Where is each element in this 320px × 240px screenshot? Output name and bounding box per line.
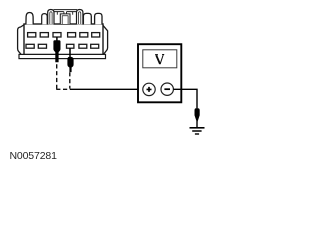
connector C1 top arch C — [48, 10, 54, 25]
connector C1 top bump B — [42, 14, 48, 25]
pin 12 bottom row — [91, 44, 99, 48]
ground symbol — [190, 127, 205, 129]
pin 2 top row — [40, 33, 48, 37]
probe P2 plug body (below connector edge) — [67, 57, 73, 72]
connector C1 latch bridge leg right — [72, 12, 74, 15]
down arrow plug on ground lead — [195, 108, 200, 121]
wire to voltmeter positive terminal — [70, 88, 143, 90]
voltmeter V1 minus sign — [164, 88, 170, 90]
voltmeter V1 body — [138, 44, 181, 102]
connector C1 body — [24, 24, 103, 55]
connector C1 left ear — [18, 24, 25, 54]
dashed test lead from arrow 1, horizontal — [56, 88, 70, 90]
connector C1 latch peg — [64, 12, 67, 14]
figure reference label — [10, 150, 57, 162]
connector C1 top bump F — [95, 13, 102, 24]
connector C1 top arch C inner wall — [50, 12, 52, 24]
probe P2 lead from pin 10 — [69, 48, 71, 58]
probe P1 plug body (at pin 9 position) — [53, 40, 60, 62]
pin 7 bottom row — [26, 44, 34, 48]
voltmeter V1 negative terminal — [161, 83, 173, 95]
voltmeter V1 plus sign — [147, 87, 152, 92]
dashed test lead from arrow 2, vertical — [69, 72, 71, 88]
connector C1 latch box inner walls — [62, 16, 68, 24]
pin 1 top row — [28, 33, 36, 37]
voltmeter V1 display window — [143, 50, 177, 68]
connector C1 latch bridge leg left — [56, 12, 58, 15]
pin 3 top row (probed) — [53, 33, 61, 37]
wire to ground — [196, 121, 198, 127]
connector C1 top bump E — [83, 13, 91, 24]
dashed test lead from arrow 1, vertical — [56, 64, 58, 89]
voltmeter V1 positive terminal — [143, 83, 155, 95]
pin 8 bottom row — [38, 44, 46, 48]
pin 4 top row — [68, 33, 76, 37]
probe P1 lead from pin 3 — [56, 37, 58, 41]
pin 10 bottom row (probed) — [67, 44, 74, 48]
pin 5 top row — [80, 33, 88, 37]
connector C1 right ear — [103, 25, 108, 55]
connector C1 latch box — [60, 14, 70, 24]
connector C1 top bump A — [26, 13, 33, 25]
connector C1 top arch D — [77, 10, 83, 25]
pin 11 bottom row — [79, 44, 87, 48]
connector C1 latch bridge — [54, 10, 78, 12]
voltmeter V1 V label — [155, 55, 164, 65]
connector C1 bottom flange — [19, 54, 106, 58]
connector C1 top arch D inner wall — [79, 12, 81, 24]
wire from negative terminal — [174, 89, 198, 109]
pin 6 top row — [92, 33, 100, 37]
